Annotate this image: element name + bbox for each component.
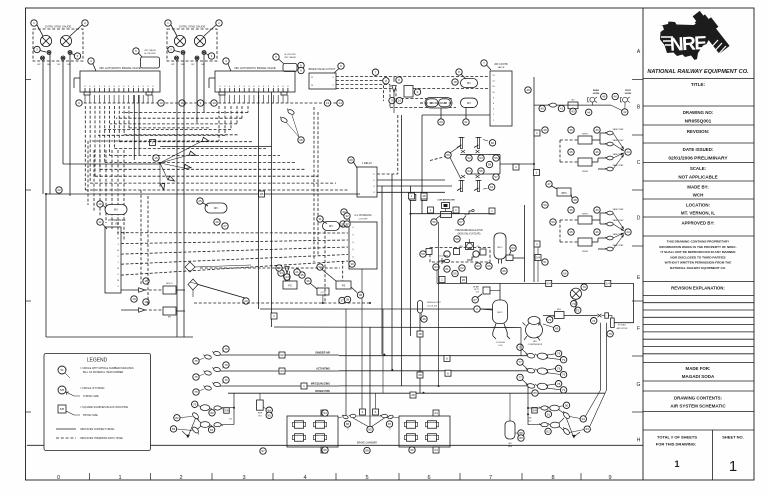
svg-text:MT. VERNON, IL: MT. VERNON, IL (681, 211, 716, 216)
sand traps (605, 131, 613, 135)
svg-text:10: 10 (398, 99, 402, 103)
svg-text:EMP: EMP (258, 413, 263, 415)
svg-text:(8000 GAL FLATCAR): (8000 GAL FLATCAR) (458, 233, 481, 236)
svg-text:48: 48 (573, 198, 577, 202)
svg-text:ER: ER (201, 64, 204, 66)
svg-text:56: 56 (494, 156, 498, 160)
26F control valve box (490, 71, 512, 126)
right hose rows (339, 355, 529, 357)
svg-text:SLOW SPD: SLOW SPD (284, 54, 296, 56)
brake valve cutout box (309, 73, 336, 89)
balloons on vert (542, 127, 548, 133)
gauge drop lines panel1 (42, 60, 44, 194)
converge balloon (625, 149, 631, 155)
main supply wire y283.4 (437, 282, 634, 284)
isolation cock (457, 181, 465, 192)
svg-text:8: 8 (128, 86, 129, 88)
HP air safety valve (483, 287, 490, 294)
svg-text:51: 51 (60, 368, 64, 372)
svg-text:8: 8 (551, 475, 554, 481)
J relay box (357, 167, 377, 197)
svg-text:26: 26 (462, 278, 466, 282)
WPS box (557, 188, 571, 196)
svg-text:82: 82 (175, 416, 179, 420)
svg-text:LEGEND: LEGEND (87, 358, 108, 364)
long verticals center-right (369, 327, 371, 428)
svg-text:49: 49 (526, 88, 530, 92)
svg-text:24: 24 (434, 411, 438, 415)
svg-text:0: 0 (57, 475, 60, 481)
svg-text:44: 44 (587, 110, 591, 114)
svg-text:62: 62 (460, 266, 464, 270)
svg-text:18: 18 (144, 279, 148, 283)
main res vertical tank (505, 421, 515, 439)
svg-text:8: 8 (287, 86, 288, 88)
svg-text:85: 85 (368, 428, 372, 432)
svg-text:18: 18 (144, 300, 148, 304)
hose chain (517, 344, 523, 350)
svg-text:58: 58 (488, 163, 492, 167)
hose lug on wire (548, 103, 556, 107)
svg-text:8: 8 (114, 86, 115, 88)
svg-text:NR055Q001: NR055Q001 (685, 119, 712, 125)
svg-text:60: 60 (491, 141, 495, 145)
svg-text:92: 92 (546, 430, 550, 434)
svg-text:8: 8 (89, 86, 90, 88)
balloon (223, 58, 229, 64)
MV at tank (506, 255, 513, 261)
svg-text:35: 35 (300, 273, 304, 277)
trap links (592, 139, 600, 141)
item balloon (165, 20, 171, 26)
brake pipe main line (228, 392, 605, 394)
svg-text:39: 39 (350, 262, 354, 266)
dryer wire (543, 315, 555, 317)
svg-text:MV: MV (467, 81, 471, 85)
svg-text:25: 25 (198, 199, 202, 203)
wire BV1 left to gauge lines (74, 77, 80, 79)
hose line (220, 370, 339, 372)
check valve diamond (188, 279, 198, 290)
svg-text:63: 63 (280, 369, 284, 373)
svg-text:H: H (637, 437, 641, 443)
svg-text:45: 45 (569, 128, 573, 132)
26C AUTOMATIC BRAKE VALVE box (215, 71, 295, 92)
svg-text:MVSB: MVSB (582, 171, 588, 173)
svg-text:78: 78 (557, 367, 561, 371)
angle cocks left (191, 412, 200, 421)
svg-text:5/8: 5/8 (60, 407, 65, 411)
svg-text:PIPING SIZE: PIPING SIZE (83, 414, 98, 417)
svg-text:8: 8 (249, 86, 250, 88)
item balloon (31, 20, 37, 26)
svg-text:= CIRCLE IS TUBING: = CIRCLE IS TUBING (80, 387, 105, 390)
svg-text:3/4: 3/4 (547, 282, 552, 286)
small fitting box (605, 313, 609, 318)
svg-text:BC: BC (191, 64, 194, 66)
svg-text:1: 1 (674, 459, 679, 469)
COC box (317, 288, 329, 295)
svg-text:75: 75 (194, 390, 198, 394)
wire tank to vert (513, 257, 525, 259)
locomotive silhouette (688, 8, 732, 57)
svg-text:MADE FOR:: MADE FOR: (686, 366, 711, 371)
svg-text:8: 8 (123, 86, 124, 88)
hose squiggle (203, 385, 212, 391)
MR2 reservoir tank (493, 300, 508, 324)
svg-text:8: 8 (109, 86, 110, 88)
svg-text:60: 60 (434, 265, 438, 269)
PS pressure switch right (336, 281, 351, 289)
svg-text:28: 28 (418, 373, 422, 377)
svg-text:PRESSURE REGULATOR: PRESSURE REGULATOR (455, 229, 483, 232)
svg-text:37: 37 (340, 299, 344, 303)
svg-text:8: 8 (138, 86, 139, 88)
misc balloons bottom (322, 410, 328, 416)
legend copper line (56, 428, 76, 430)
svg-text:SANDER AIR: SANDER AIR (315, 352, 330, 355)
svg-text:7: 7 (489, 475, 492, 481)
svg-text:CNT VALVE: CNT VALVE (284, 56, 296, 59)
NRE logo: USA map with locomotive (659, 8, 732, 60)
svg-text:66: 66 (563, 271, 567, 275)
pin drops to bus (84, 95, 86, 103)
svg-text:79: 79 (562, 373, 566, 377)
svg-text:NOT APPLICABLE: NOT APPLICABLE (678, 175, 717, 180)
svg-text:MR: MR (508, 443, 512, 445)
svg-text:45: 45 (569, 150, 573, 154)
isolation cock (474, 138, 482, 149)
svg-text:90: 90 (565, 403, 569, 407)
emp valve (257, 400, 264, 410)
svg-text:MV: MV (467, 101, 471, 105)
svg-text:8: 8 (133, 86, 134, 88)
svg-text:8: 8 (258, 86, 259, 88)
svg-text:78: 78 (557, 382, 561, 386)
dashed row y97-108 (420, 98, 452, 100)
svg-text:REVISION EXPLANATION:: REVISION EXPLANATION: (671, 286, 725, 291)
svg-text:46: 46 (595, 128, 599, 132)
vert pair mid-right (533, 77, 535, 282)
svg-text:77: 77 (518, 345, 522, 349)
svg-text:64: 64 (511, 246, 515, 250)
svg-text:8: 8 (143, 86, 144, 88)
feed vertical ext (520, 328, 522, 356)
double check valves pair (279, 116, 288, 124)
svg-text:16: 16 (98, 202, 102, 206)
svg-text:24: 24 (285, 275, 289, 279)
svg-text:COMPRESSOR: COMPRESSOR (528, 344, 543, 346)
balloons near top cocks (489, 140, 495, 146)
svg-text:79: 79 (562, 358, 566, 362)
svg-text:VALVE: VALVE (498, 66, 505, 69)
dashed riser bundle from brake valve 1 pins (84, 106, 86, 190)
MV dryer box (555, 312, 565, 319)
svg-text:8: 8 (118, 86, 119, 88)
row B gladhand (528, 424, 541, 426)
svg-text:1: 1 (118, 475, 121, 481)
svg-text:26C AUTOMATIC BRAKE VALVE: 26C AUTOMATIC BRAKE VALVE (234, 66, 276, 70)
svg-text:WPS: WPS (561, 192, 567, 195)
slow speed control box 2 (283, 64, 297, 72)
svg-text:3: 3 (242, 475, 245, 481)
check valve (168, 176, 175, 181)
svg-text:COM AIR FILTER: COM AIR FILTER (437, 199, 455, 202)
check valve (202, 137, 209, 141)
bottom ruler tick marks (89, 473, 91, 480)
svg-text:72: 72 (576, 308, 580, 312)
check valve drop (392, 86, 396, 92)
svg-text:AIR FILTER: AIR FILTER (617, 327, 628, 330)
legend item 1 circle (58, 366, 66, 374)
svg-text:MVSB: MVSB (582, 251, 588, 253)
dashed feed (560, 139, 578, 141)
check valve (189, 151, 196, 155)
hose line (220, 354, 339, 356)
svg-text:46: 46 (595, 150, 599, 154)
title block outer (642, 8, 644, 480)
pin ticks (84, 88, 86, 92)
wire to control valve (422, 114, 490, 116)
angle cocks (561, 410, 570, 419)
MV53 valve (105, 205, 127, 215)
duplex gauge 2 (194, 35, 205, 46)
svg-text:10: 10 (212, 101, 216, 105)
svg-text:SCALE:: SCALE: (690, 166, 707, 171)
svg-text:MV: MV (329, 224, 333, 228)
svg-text:8: 8 (268, 86, 269, 88)
svg-text:66: 66 (502, 269, 506, 273)
svg-text:23: 23 (244, 299, 248, 303)
truck linkage triangle (349, 414, 356, 417)
svg-text:COC: COC (321, 292, 326, 294)
svg-text:44: 44 (626, 150, 630, 154)
svg-text:39: 39 (422, 317, 426, 321)
svg-text:BRAKE CHAMBER: BRAKE CHAMBER (357, 442, 377, 445)
dashed stub to PS2 (342, 261, 344, 281)
svg-text:J RELAY: J RELAY (362, 161, 373, 165)
balloon fan (153, 155, 159, 161)
svg-text:02/01/2006 PRELIMINARY: 02/01/2006 PRELIMINARY (668, 156, 728, 162)
dashed runs cutout to control valve (336, 76, 490, 78)
26C AUTOMATIC BRAKE VALVE box (80, 71, 160, 92)
svg-text:MV: MV (214, 206, 218, 210)
svg-text:44: 44 (626, 230, 630, 234)
svg-text:8: 8 (148, 86, 149, 88)
svg-text:89: 89 (519, 436, 523, 440)
svg-text:MVFS: MVFS (582, 214, 588, 216)
dashed to A1 (340, 225, 349, 227)
MV 53A valve (205, 203, 227, 213)
svg-text:COOLING: COOLING (496, 342, 506, 344)
svg-text:5: 5 (365, 475, 368, 481)
svg-text:INDICATES THERMOPLASTIC HOSE: INDICATES THERMOPLASTIC HOSE (80, 437, 123, 440)
svg-text:49: 49 (543, 128, 547, 132)
svg-text:78: 78 (557, 352, 561, 356)
horn supply wire (534, 104, 611, 106)
svg-text:22: 22 (57, 188, 61, 192)
hose balloon2 (223, 377, 229, 383)
PS pressure switch left (283, 281, 297, 289)
legend box (44, 354, 151, 451)
sq tags on buses (271, 313, 277, 319)
svg-text:83: 83 (172, 427, 176, 431)
hose balloon2 (223, 346, 229, 352)
MR1 tank (494, 233, 506, 259)
MV box (163, 307, 176, 315)
sheets row (643, 429, 754, 431)
svg-text:65: 65 (453, 272, 457, 276)
right loop (488, 154, 500, 156)
sand MV boxes (578, 136, 592, 144)
svg-text:33: 33 (345, 222, 349, 226)
left connector (341, 414, 348, 419)
svg-text:52: 52 (467, 156, 471, 160)
svg-text:5/8: 5/8 (60, 388, 65, 392)
svg-text:86: 86 (346, 422, 350, 426)
svg-text:PS: PS (288, 284, 292, 288)
triangle down (285, 267, 289, 273)
svg-text:BRAKE PIPE: BRAKE PIPE (315, 390, 330, 393)
svg-text:LOCATION:: LOCATION: (686, 203, 711, 208)
MVCC box (163, 286, 176, 294)
svg-text:MV: MV (114, 208, 118, 212)
svg-text:REAR: REAR (593, 89, 600, 92)
dashed horizontal mesh (BV1 to valves) (85, 189, 348, 191)
hose squiggle (203, 354, 212, 360)
svg-text:8: 8 (224, 86, 225, 88)
svg-text:75: 75 (194, 359, 198, 363)
svg-text:HORN: HORN (593, 93, 600, 95)
svg-text:SAND TRAP: SAND TRAP (613, 128, 625, 131)
svg-text:DATE ISSUED:: DATE ISSUED: (683, 147, 714, 152)
row B gladhand left (221, 424, 234, 426)
verticals right bottom (600, 323, 602, 390)
svg-text:76: 76 (224, 363, 228, 367)
valve2 (467, 257, 475, 260)
motor circle (570, 288, 581, 299)
svg-text:MR EQUALIZING: MR EQUALIZING (311, 383, 330, 386)
svg-text:34: 34 (279, 271, 283, 275)
svg-text:AIR SYSTEM SCHEMATIC: AIR SYSTEM SCHEMATIC (670, 404, 726, 409)
svg-text:20: 20 (439, 120, 443, 124)
svg-text:57: 57 (494, 175, 498, 179)
pin drops to bus (219, 95, 221, 103)
svg-text:85: 85 (268, 413, 272, 417)
left border ticks (26, 79, 32, 81)
svg-text:NATIONAL RAILWAY EQUIPMENT CO.: NATIONAL RAILWAY EQUIPMENT CO. (670, 266, 726, 270)
vertical into MR2 tank (499, 283, 501, 300)
bowtie valve (598, 314, 602, 318)
svg-text:15: 15 (154, 156, 158, 160)
svg-text:MR 2: MR 2 (497, 312, 503, 314)
svg-text:MR: MR (47, 64, 51, 66)
svg-text:18: 18 (453, 80, 457, 84)
svg-text:1: 1 (729, 458, 737, 475)
valve with handle (464, 211, 472, 214)
svg-text:CUTOFF: CUTOFF (359, 219, 368, 221)
svg-text:3/8: 3/8 (224, 409, 229, 413)
svg-text:45: 45 (602, 95, 606, 99)
svg-text:= SQUARE SIGNIFIES BLACK IRON: = SQUARE SIGNIFIES BLACK IRON PIPE (80, 406, 128, 409)
J pin wires east (377, 179, 445, 181)
svg-text:MADE BY:: MADE BY: (687, 185, 709, 190)
svg-text:75: 75 (194, 375, 198, 379)
svg-text:8: 8 (219, 86, 220, 88)
MV near A1 (323, 222, 340, 231)
svg-text:ER: ER (67, 64, 70, 66)
svg-text:10: 10 (159, 101, 163, 105)
svg-text:DRAWING NO:: DRAWING NO: (683, 110, 714, 115)
svg-text:38: 38 (346, 298, 350, 302)
svg-text:TITLE:: TITLE: (691, 82, 706, 87)
hose squiggle (203, 370, 212, 376)
feet (84, 92, 90, 95)
svg-text:9: 9 (608, 475, 611, 481)
COT stub to bus (322, 295, 324, 303)
check valve (160, 183, 164, 190)
legend item 2 circle (58, 386, 66, 394)
svg-text:WCH: WCH (693, 193, 704, 198)
hose line (220, 385, 339, 387)
svg-text:2B: 2B (260, 192, 264, 196)
isolation cock (457, 138, 465, 149)
horn wires (591, 102, 593, 105)
control stand gauge panel dashed box (167, 29, 217, 61)
svg-text:21: 21 (464, 120, 468, 124)
ext adj air filter (611, 318, 615, 327)
svg-text:46: 46 (595, 230, 599, 234)
DRAWING CONTENTS row (643, 390, 754, 392)
svg-text:RES: RES (508, 446, 513, 448)
svg-text:SLOW SPD: SLOW SPD (144, 53, 156, 55)
duplex gauge 1 (174, 35, 185, 46)
left balloon + slants (445, 152, 451, 158)
svg-text:8: 8 (99, 86, 100, 88)
svg-text:SAND TRAP: SAND TRAP (613, 208, 625, 211)
svg-text:4: 4 (303, 475, 306, 481)
svg-text:45: 45 (569, 208, 573, 212)
dashed verticals down to A1 area (313, 107, 315, 262)
svg-text:CNT VALVE: CNT VALVE (144, 49, 156, 52)
row boundary ticks on title block left border (632, 79, 643, 81)
svg-text:43: 43 (571, 109, 575, 113)
valves right of PC box (139, 288, 145, 292)
BP terminal box (404, 86, 413, 98)
USA map silhouette (659, 18, 716, 61)
svg-text:76: 76 (224, 378, 228, 382)
air compressor (523, 317, 543, 341)
svg-text:FOR THIS DRAWING:: FOR THIS DRAWING: (656, 442, 696, 447)
2B label (259, 191, 265, 197)
svg-text:AIR: AIR (533, 340, 537, 343)
svg-text:8: 8 (84, 86, 85, 88)
svg-text:18: 18 (418, 332, 422, 336)
svg-text:TOTAL # OF SHEETS: TOTAL # OF SHEETS (657, 435, 697, 440)
svg-text:NOR DISCLOSED TO THIRD PARTIES: NOR DISCLOSED TO THIRD PARTIES (670, 255, 725, 259)
row A gladhand (528, 407, 541, 409)
svg-text:SHEET NO.: SHEET NO. (722, 435, 744, 440)
isolation cock (474, 181, 482, 192)
svg-text:MAGADI SODA: MAGADI SODA (682, 374, 715, 379)
svg-text:36: 36 (306, 279, 310, 283)
svg-text:INFORMATION WHICH IS THE PROPE: INFORMATION WHICH IS THE PROPERTY OF NRE… (659, 245, 736, 249)
svg-text:WITHOUT WRITTEN PERMISSION FRO: WITHOUT WRITTEN PERMISSION FROM THE (665, 261, 732, 265)
tank neck (498, 259, 500, 264)
svg-text:81: 81 (210, 428, 214, 432)
hose end balloon (193, 389, 199, 395)
hose balloon2 (223, 362, 229, 368)
